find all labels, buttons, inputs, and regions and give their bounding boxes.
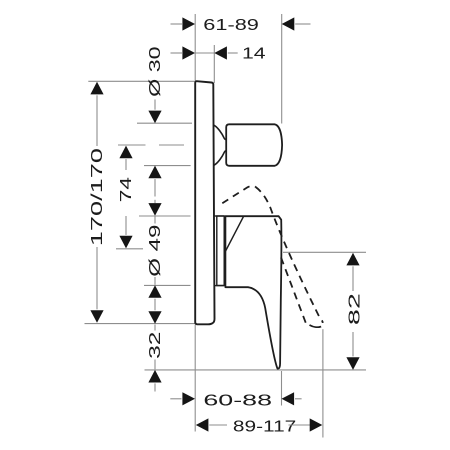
extension line lever tip (for 60-88)	[281, 371, 283, 406]
dashed lever raised position: upper edge	[256, 187, 321, 319]
dimension O 30	[147, 46, 164, 203]
knob (temperature handle)	[226, 124, 282, 166]
adapter top tick	[215, 215, 225, 217]
svg-text:Ø 49: Ø 49	[147, 224, 164, 276]
leader knob top (O30)	[137, 122, 192, 124]
svg-text:14: 14	[242, 46, 266, 63]
dashed lever raised position: lower edge	[281, 258, 306, 323]
dimension 74	[118, 146, 135, 249]
leader lever top (O49)	[139, 215, 191, 217]
leader 170/170 top	[88, 80, 194, 82]
dashed lever raised position: tip arc	[310, 320, 323, 327]
leader lever pivot (82 top)	[283, 251, 366, 253]
dimension 60-88	[170, 392, 301, 409]
dimension 89-117	[196, 418, 322, 435]
svg-text:32: 32	[147, 331, 164, 358]
dimension O 49	[147, 203, 164, 310]
extension line left (wall plane) bottom	[194, 325, 196, 432]
svg-text:61-89: 61-89	[203, 17, 259, 34]
extension line knob tip (for 61-89)	[281, 14, 283, 124]
lever adapter ring	[217, 216, 224, 286]
svg-text:74: 74	[118, 177, 135, 202]
svg-text:170/170: 170/170	[89, 148, 106, 246]
dimension 61-89	[171, 17, 311, 34]
extension line left (wall plane) top	[194, 14, 196, 81]
svg-text:Ø 30: Ø 30	[147, 46, 164, 97]
knob neck top curve	[214, 125, 227, 140]
extension line plate front (for 14)	[213, 45, 215, 83]
leader knob bottom (O30)	[144, 165, 191, 167]
extension line dashed-lever tip (for 89-117)	[322, 329, 324, 437]
lever handle body	[225, 216, 281, 368]
adapter bottom tick	[215, 285, 224, 287]
dimension 14	[171, 46, 266, 63]
leader lever bottom (O49) / 74 bottom tick	[116, 248, 143, 250]
leader lever tip level (32 bottom / 82 bottom)	[145, 369, 367, 371]
dashed lever raised position: hump over pivot	[222, 186, 255, 203]
svg-text:60-88: 60-88	[203, 392, 272, 409]
lever cone inner line	[226, 217, 244, 252]
dimension 170/170	[89, 82, 106, 323]
svg-text:82: 82	[346, 293, 363, 325]
wall plate (escutcheon)	[195, 81, 214, 324]
knob neck bottom curve	[214, 151, 226, 166]
leader plate bottom	[85, 323, 196, 325]
svg-text:89-117: 89-117	[233, 418, 297, 435]
dimension 82	[346, 253, 363, 370]
dimension 32	[147, 311, 164, 391]
centerline knob axis / 74 top tick	[118, 144, 146, 146]
